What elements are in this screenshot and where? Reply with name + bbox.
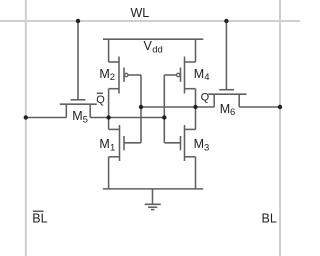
svg-text:4: 4: [204, 72, 209, 83]
wire M4 gate to cross-coupling: [164, 74, 176, 76]
wire M2 drain to M1 drain (Q-bar node vertical): [108, 89, 110, 130]
M1 label: [99, 137, 115, 153]
wire cross-coupling left vertical (Q to M2/M1 gates): [140, 75, 142, 143]
wire cross-coupling right vertical (Q-bar to M4/M3 gates): [163, 75, 165, 143]
bit line BL: [279, 0, 281, 256]
node Q: [193, 105, 197, 109]
M2 label: [99, 67, 115, 83]
svg-text:WL: WL: [131, 6, 150, 20]
transistor M3: [164, 125, 195, 161]
svg-text:M: M: [220, 102, 230, 116]
node Q to M2/M1 gate junction: [139, 105, 143, 109]
node BL-bar/M5 junction: [24, 115, 28, 119]
transistor M2: [109, 57, 128, 94]
M5 label: [72, 109, 88, 125]
svg-text:3: 3: [204, 142, 209, 153]
wire BL-bar to M5 source: [26, 117, 67, 119]
node WL/M6 gate junction: [224, 19, 228, 23]
wire Q-bar node horizontal: [90, 117, 164, 119]
wire M1 source to ground rail: [108, 157, 110, 189]
wire M3 source to ground rail: [195, 157, 197, 189]
svg-text:Q: Q: [96, 94, 105, 106]
Vdd rail: [103, 38, 203, 40]
node WL/M5 gate junction: [76, 19, 80, 23]
word line WL: [0, 20, 300, 22]
wire Vdd to M4 source: [195, 39, 197, 62]
svg-text:M: M: [194, 137, 204, 151]
node BL/M6 junction: [278, 105, 282, 109]
M3 label: [194, 137, 210, 153]
svg-text:5: 5: [83, 114, 88, 125]
M6 label: [220, 102, 236, 118]
node Q-bar to M4/M3 gate junction: [162, 115, 166, 119]
bit line BL-bar: [25, 0, 27, 256]
wire M2 gate to cross-coupling: [128, 74, 141, 76]
transistor M4: [177, 57, 196, 94]
transistor M6: [208, 21, 246, 107]
svg-text:dd: dd: [152, 44, 163, 55]
ground rail: [103, 188, 204, 190]
svg-text:M: M: [72, 109, 82, 123]
ground: [145, 189, 161, 210]
svg-text:V: V: [144, 39, 153, 53]
Q-bar label: [96, 93, 105, 106]
svg-text:Q: Q: [201, 92, 210, 104]
node Q-bar: [106, 115, 110, 119]
svg-text:M: M: [194, 67, 204, 81]
transistor M1: [109, 125, 141, 161]
svg-text:BL: BL: [262, 212, 277, 226]
wire M4 drain to M3 drain (Q node vertical): [195, 89, 197, 130]
svg-text:M: M: [99, 67, 109, 81]
wire M6 drain to BL: [239, 106, 280, 108]
svg-text:M: M: [99, 137, 109, 151]
wire Q node horizontal: [141, 106, 214, 108]
svg-text:2: 2: [110, 72, 115, 83]
svg-text:6: 6: [230, 107, 235, 118]
svg-text:1: 1: [110, 142, 115, 153]
BL-bar label: [32, 211, 47, 225]
wire Vdd to M2 source: [108, 39, 110, 62]
svg-text:BL: BL: [32, 212, 47, 226]
Vdd label: [144, 39, 163, 55]
transistor M5: [60, 21, 97, 118]
M4 label: [194, 67, 210, 83]
